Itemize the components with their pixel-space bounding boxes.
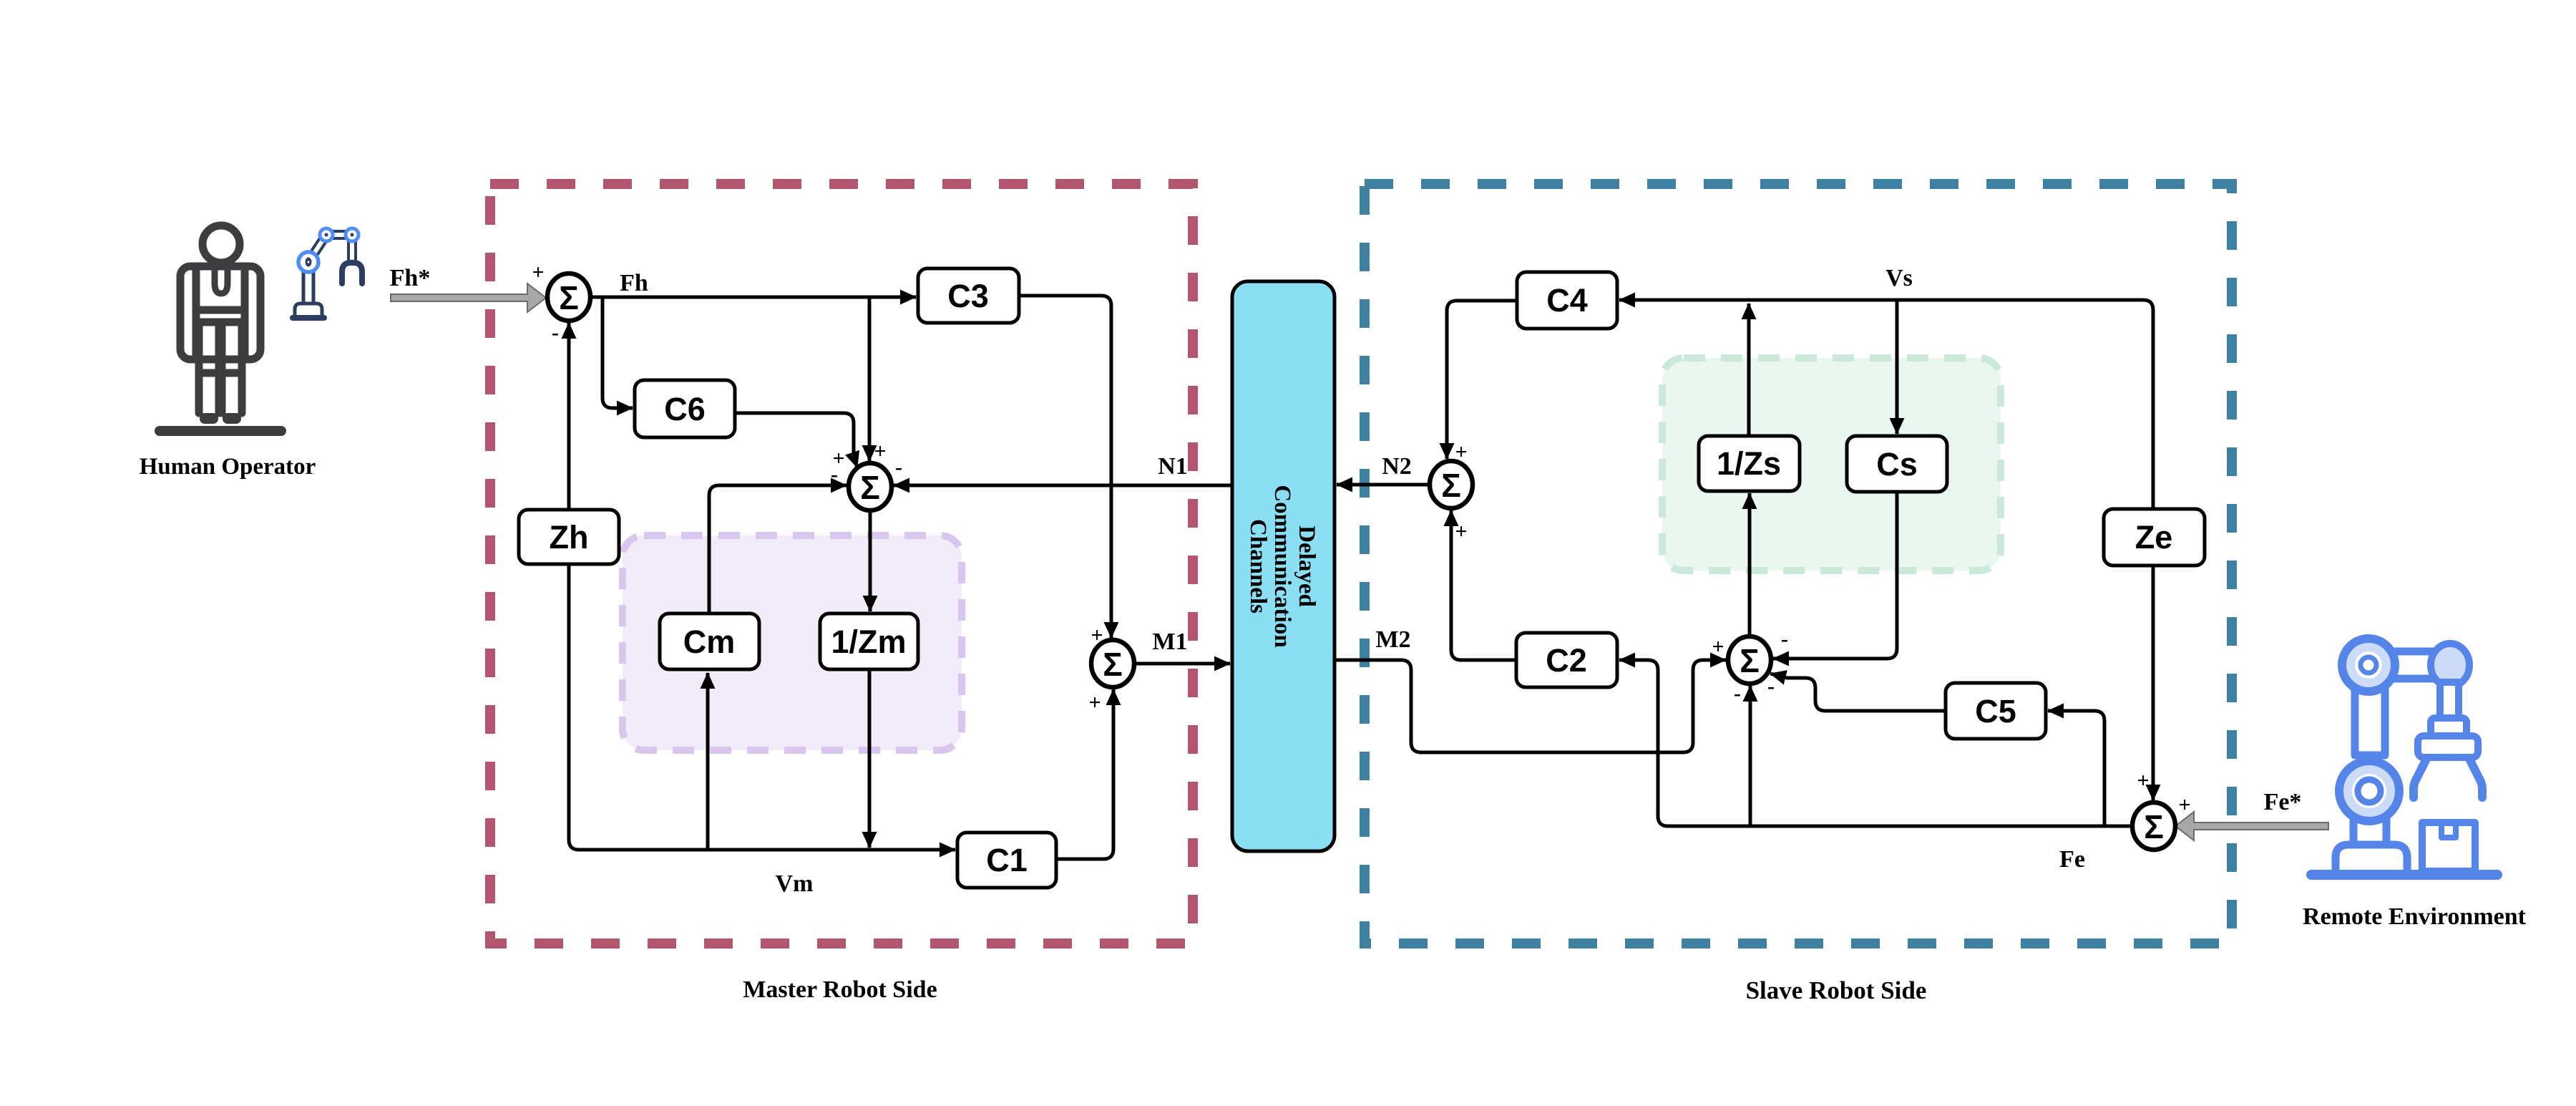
wire Vm line up into Cm [706, 673, 710, 850]
wire Vs line to C4 [1619, 299, 1749, 302]
svg-text:N1: N1 [1158, 453, 1188, 480]
svg-text:+: + [874, 440, 886, 463]
svg-text:Master Robot Side: Master Robot Side [743, 976, 937, 1003]
wire 1/Zs up to Vs line [1747, 304, 1751, 436]
svg-text:Σ: Σ [1441, 467, 1461, 504]
wire Cs down to sum S5 right [1773, 492, 1897, 659]
wire Ze down to sum S6 top [2152, 566, 2155, 800]
svg-text:Human Operator: Human Operator [140, 454, 316, 480]
wire 1/Zm down to Vm line [868, 669, 872, 848]
small robot arm icon [290, 228, 362, 321]
svg-text:C4: C4 [1546, 282, 1588, 319]
wire branch Fh down to sum S2 top [868, 297, 872, 461]
block C3 [918, 268, 1019, 323]
svg-text:C6: C6 [664, 391, 706, 427]
wire sum S2 down to 1/Zm [869, 510, 872, 611]
svg-text:Cm: Cm [683, 624, 736, 660]
wire C1 to sum S3 bottom [1056, 689, 1113, 859]
svg-text:1/Zs: 1/Zs [1717, 445, 1781, 482]
svg-text:Delayed: Delayed [1294, 525, 1319, 607]
block C1 [957, 833, 1056, 888]
svg-text:1/Zm: 1/Zm [831, 624, 906, 660]
svg-text:-: - [1734, 681, 1741, 705]
svg-text:M1: M1 [1152, 629, 1187, 655]
svg-text:Ze: Ze [2135, 519, 2173, 556]
block Cm [660, 613, 759, 669]
sum S2 [849, 463, 892, 510]
block Ze [2104, 509, 2205, 566]
svg-text:-: - [552, 321, 559, 344]
svg-text:-: - [895, 455, 902, 479]
wire C4 down to sum S4 top [1447, 301, 1517, 459]
human operator icon [180, 225, 260, 413]
svg-text:-: - [1767, 674, 1775, 698]
svg-text:Σ: Σ [860, 469, 880, 506]
sum S3 [1091, 640, 1134, 687]
wire C5 to sum S5 diagonal [1770, 674, 1946, 711]
sum S6 [2132, 802, 2175, 850]
block Zh [519, 510, 619, 564]
svg-text:Fh*: Fh* [390, 265, 431, 291]
svg-text:+: + [2137, 769, 2149, 792]
master inner purple group box [623, 535, 962, 750]
wire Cm up to sum S2 left [709, 485, 847, 613]
wire Zh down and Vm line to C1 [569, 564, 955, 850]
wire Fe branch up to C5 [2048, 711, 2104, 826]
svg-text:Remote Environment: Remote Environment [2303, 903, 2527, 930]
block 1/Zm [820, 613, 918, 669]
svg-text:+: + [1455, 440, 1467, 464]
svg-text:Vs: Vs [1885, 265, 1913, 291]
svg-text:C2: C2 [1546, 642, 1587, 679]
wire Fh from sum S1 to C3 [590, 296, 916, 299]
svg-text:Cs: Cs [1876, 446, 1918, 482]
wire N1 from channel to sum S2 right [894, 484, 1232, 487]
sum S1 [547, 273, 590, 321]
svg-text:+: + [532, 261, 544, 284]
block 1/Zs [1699, 436, 1800, 491]
slave inner green group box [1662, 358, 2001, 571]
wire Zh up to sum S1 bottom [567, 323, 571, 510]
wire M2 from channel to sum S5 left [1335, 660, 1726, 752]
block C6 [635, 380, 735, 437]
sum S4 [1430, 461, 1473, 508]
gray input arrow Fh* [391, 283, 546, 312]
svg-text:C3: C3 [947, 278, 989, 314]
svg-text:Vm: Vm [776, 870, 814, 897]
svg-text:N2: N2 [1382, 453, 1412, 480]
master robot side dashed boundary [490, 184, 1193, 944]
svg-text:M2: M2 [1375, 626, 1410, 653]
wire Fe line from sum S6 to C2 [1619, 660, 2132, 826]
sum S5 [1728, 636, 1771, 684]
svg-text:Fe*: Fe* [2264, 789, 2302, 815]
block C5 [1946, 683, 2046, 739]
wire branch Fh down to C6 [602, 297, 633, 408]
svg-text:+: + [1088, 691, 1101, 714]
delayed communication channels box [1232, 281, 1335, 851]
wire M1 from sum S3 to channel [1134, 662, 1230, 666]
wire N2 from sum S4 to channel [1337, 483, 1430, 487]
wire C6 to sum S2 diagonal [735, 413, 857, 467]
svg-text:Σ: Σ [2144, 808, 2164, 845]
svg-text:Fe: Fe [2059, 846, 2085, 873]
wire sum S5 up to 1/Zs [1748, 493, 1752, 636]
block Cs [1847, 436, 1947, 492]
svg-text:Zh: Zh [550, 519, 589, 556]
svg-text:Communication: Communication [1269, 485, 1295, 647]
svg-text:Fh: Fh [620, 270, 648, 296]
wire Vs branch down to Cs [1896, 300, 1899, 434]
svg-text:-: - [831, 462, 838, 486]
svg-text:C5: C5 [1975, 693, 2016, 729]
svg-text:-: - [1781, 627, 1788, 651]
wire Fe branch up to sum S5 bottom [1749, 686, 1752, 826]
wire C3 to sum S3 top [1019, 296, 1111, 638]
svg-text:C1: C1 [986, 842, 1028, 878]
svg-text:Σ: Σ [559, 279, 579, 316]
svg-text:Channels: Channels [1245, 519, 1271, 613]
svg-text:Σ: Σ [1103, 646, 1123, 683]
remote environment robot icon [2306, 639, 2502, 880]
svg-text:+: + [1455, 520, 1467, 543]
block C2 [1516, 633, 1617, 687]
svg-text:Σ: Σ [1740, 642, 1760, 679]
svg-text:Slave Robot Side: Slave Robot Side [1746, 976, 1927, 1004]
slave robot side dashed boundary [1365, 184, 2232, 944]
wire C2 to sum S4 bottom [1451, 510, 1516, 660]
wire Vs line right and down to Ze [1749, 300, 2153, 509]
svg-text:+: + [2178, 793, 2190, 817]
svg-text:+: + [1091, 624, 1103, 647]
block C4 [1517, 272, 1617, 329]
gray input arrow Fe* [2175, 812, 2328, 840]
svg-text:+: + [1712, 635, 1724, 659]
